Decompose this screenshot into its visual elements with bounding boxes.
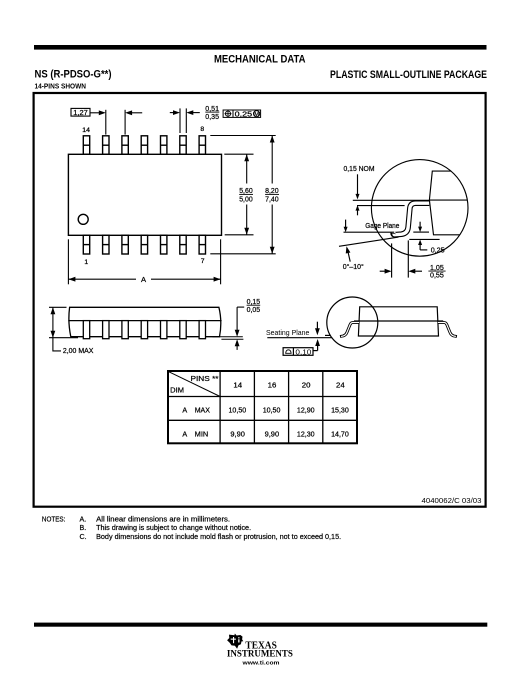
svg-text:14: 14 [233,381,242,390]
pin 13 [103,136,109,155]
side view lead 2 [103,321,109,339]
svg-text:0,25: 0,25 [235,110,253,119]
svg-text:8,20: 8,20 [265,186,279,195]
text 1,05/0,55 [428,263,445,280]
svg-text:0°–10°: 0°–10° [343,262,364,271]
svg-text:12,90: 12,90 [297,405,315,414]
svg-text:B.: B. [80,524,87,532]
svg-text:1,27: 1,27 [73,108,88,117]
detail circle [371,160,468,257]
svg-text:MECHANICAL DATA: MECHANICAL DATA [214,53,306,65]
gage plane pointer arrow [344,220,348,233]
svg-text:0,15 NOM: 0,15 NOM [344,164,375,173]
2,00 MAX bottom tick [49,337,78,339]
true position callout 0,25 M [223,110,261,119]
svg-text:10,50: 10,50 [263,405,281,414]
end view left lead [340,322,359,336]
side view lead 4 [141,321,147,339]
stand-off elbow to text [237,306,244,308]
detail circle (end view) [327,297,378,348]
svg-text:14,70: 14,70 [331,429,349,438]
bottom rule [34,623,487,627]
extension line A left [67,239,69,284]
side view lead 3 [122,321,128,339]
svg-text:MIN: MIN [195,429,209,438]
svg-text:DIM: DIM [170,386,184,395]
svg-text:15,30: 15,30 [331,405,349,414]
flatness leader elbow [313,350,318,352]
svg-text:10,50: 10,50 [229,405,247,414]
svg-text:7: 7 [201,258,205,265]
svg-text:1: 1 [84,259,88,266]
svg-text:0,35: 0,35 [205,112,219,121]
extension line bottom pins tip [210,253,275,255]
side view lead 1 [83,321,89,339]
stand-off: seating plane extension line [221,338,243,340]
svg-text:NOTES:: NOTES: [42,515,66,523]
pin 9 [180,136,186,155]
extension line body top right [224,153,253,155]
table column line 4 [322,371,324,443]
seating plane down arrow [315,322,320,336]
svg-text:9,90: 9,90 [230,429,245,438]
svg-text:www.ti.com: www.ti.com [241,661,279,667]
svg-text:7,40: 7,40 [265,195,279,204]
seating plane up arrow [315,339,320,351]
pin 4 [141,235,147,254]
row label A MIN [182,429,208,438]
TI texas map glyph [227,634,243,649]
svg-text:14-PINS SHOWN: 14-PINS SHOWN [35,82,87,91]
0,25 up arrow with elbow [418,240,427,250]
end view body [358,307,438,336]
pin 8 [199,136,205,155]
text 0,15/0,05 [247,297,261,314]
pin 14 [83,136,89,155]
text 0,51/0,35 [205,104,219,121]
pin 5 [161,235,167,254]
package body (top view) [68,154,221,235]
extension line body bottom right [225,234,254,236]
gage plane line left segment [344,231,395,233]
svg-text:All linear dimensions are in m: All linear dimensions are in millimeters… [96,515,230,523]
svg-text:INSTRUMENTS: INSTRUMENTS [227,649,293,660]
table header diagonal [169,372,220,397]
seating plane line [267,337,332,339]
table row line 2 [168,419,357,421]
pin 10 [161,136,167,155]
svg-text:4040062/C 03/03: 4040062/C 03/03 [422,496,482,505]
0,15 NOM upper arrow [356,174,360,199]
gage plane line right segment [413,231,429,233]
pin 2 [103,235,109,254]
svg-text:24: 24 [336,381,345,390]
0,25 down arrow [418,222,422,232]
svg-text:5,00: 5,00 [239,195,253,204]
side view lead 5 [161,321,167,339]
svg-text:20: 20 [302,381,311,390]
svg-text:8: 8 [200,126,204,133]
end view right lead [438,322,457,336]
lead foot angle line 0-10 deg [339,237,399,246]
extension line pin 13 center [105,110,107,135]
leader from pin 8 to 8,20 dim top [210,135,275,137]
pin 3 [122,235,128,254]
2,00 MAX top tick [49,306,67,308]
leader 1,27 with right arrow to pin 13 center [90,110,106,115]
text 5,60/5,00 [239,186,253,204]
svg-text:A.: A. [80,515,87,523]
svg-text:5,60: 5,60 [239,186,253,195]
detail body parting line [429,199,467,201]
dimension line 5,60/5,00 [244,154,249,235]
top rule [34,45,487,50]
side view parting line [68,320,221,322]
pin 12 [122,136,128,155]
seating plane line (detail) [409,238,439,240]
stand-off up arrow [235,339,240,350]
dimension line 2,00 MAX [51,307,56,337]
svg-text:PLASTIC SMALL-OUTLINE PACKAGE: PLASTIC SMALL-OUTLINE PACKAGE [330,69,487,81]
svg-text:A: A [141,275,147,284]
row label A MAX [182,405,210,414]
lead bottom surface extension line [357,205,405,207]
angle leader arrow [344,246,350,262]
left arrow at pin 12 center [125,110,142,115]
detail lead [393,203,429,235]
svg-text:Body dimensions do not include: Body dimensions do not include mold flas… [96,533,341,541]
svg-text:NS (R-PDSO-G**): NS (R-PDSO-G**) [35,68,112,80]
2,00 MAX leader elbow [53,338,61,351]
dimension line A [68,277,220,282]
svg-text:Gage Plane: Gage Plane [365,221,399,230]
1,05/0,55 right extension line [407,240,409,277]
side view lead 7 [199,321,205,339]
table outer border [168,371,357,443]
pin 7 [199,235,205,254]
extension line A right [220,239,222,284]
flatness callout 0,10 [283,348,313,356]
stand-off: body bottom extension line [213,336,243,338]
extension line pin 12 center [124,110,126,135]
lead top surface extension line [353,199,430,201]
detail body edge [429,171,460,235]
pin 1 [83,235,89,254]
pin 1 index circle [78,214,88,224]
0,15 NOM lower arrow [356,205,360,215]
svg-text:12,30: 12,30 [297,429,315,438]
dimension 1,27 box [71,108,90,116]
svg-text:16: 16 [268,381,277,390]
svg-text:C.: C. [80,533,87,541]
side view lead 6 [180,321,186,339]
side view body outline [69,307,221,336]
lead width dim: right arrow at pin 9 left edge [170,110,180,115]
table row line 1 [168,396,357,398]
lead width dim: left arrow at pin 9 right edge with tail [186,110,200,115]
pin 6 [180,235,186,254]
table column line 3 [288,371,290,443]
svg-text:9,90: 9,90 [265,429,280,438]
svg-text:A: A [182,429,187,438]
table column line 2 [253,371,255,443]
table column line 1 [219,371,221,443]
foot top level line (left of circle) [325,334,331,336]
1,05/0,55 left extension line [391,243,393,277]
svg-text:0,25: 0,25 [431,246,445,255]
svg-text:MAX: MAX [195,405,210,414]
text 8,20/7,40 [265,186,279,204]
svg-text:PINS **: PINS ** [191,374,219,383]
extension line pin 9 left edge [179,108,181,133]
svg-text:A: A [182,405,187,414]
svg-text:0,10: 0,10 [295,347,311,356]
svg-text:0,55: 0,55 [430,270,444,279]
svg-text:M: M [254,112,259,118]
dimension line 8,20/7,40 [270,136,275,254]
stand-off down arrow [235,307,240,337]
svg-text:Seating Plane: Seating Plane [266,328,309,337]
svg-text:This drawing is subject to cha: This drawing is subject to change withou… [96,524,251,532]
svg-text:14: 14 [82,127,90,134]
end view parting line [354,320,443,322]
extension line pin 9 right edge [185,108,187,133]
drawing frame [34,93,486,507]
1,05/0,55 dimension arrows [380,269,422,274]
svg-text:2,00 MAX: 2,00 MAX [63,346,94,355]
svg-text:0,05: 0,05 [247,305,261,314]
pin 11 [141,136,147,155]
